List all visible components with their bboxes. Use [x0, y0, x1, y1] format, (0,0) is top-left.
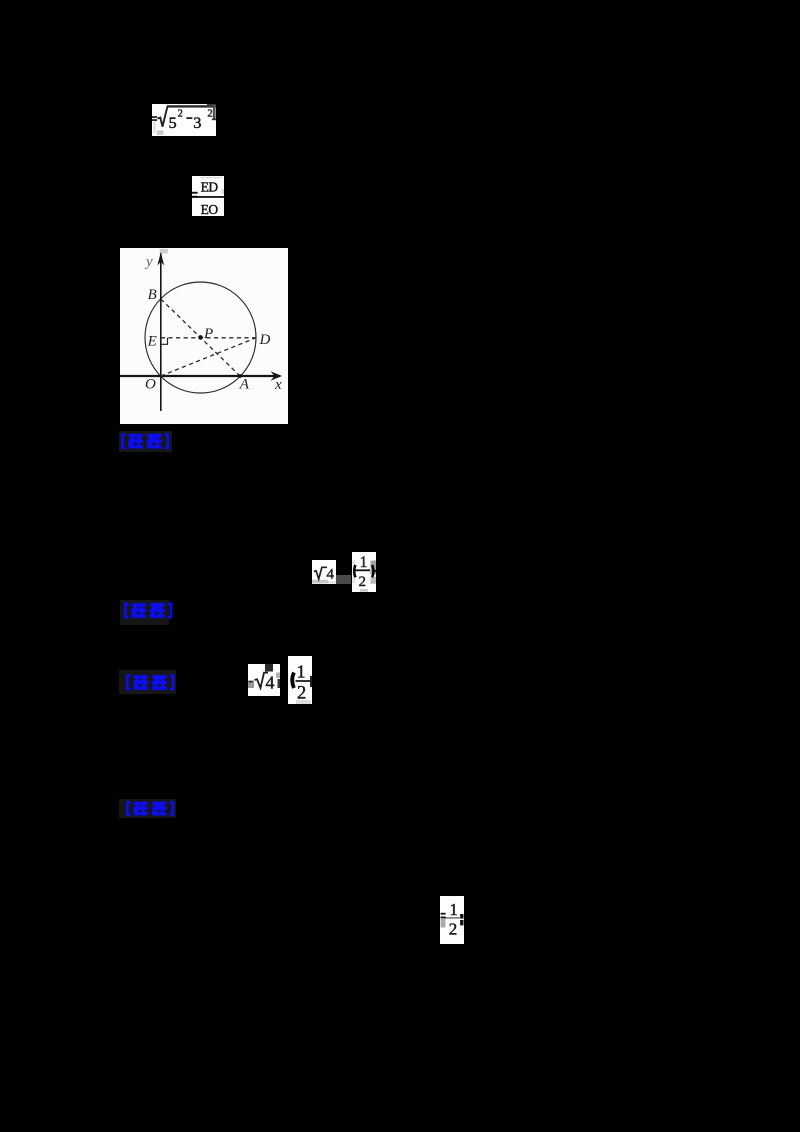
svg-text:ED: ED — [201, 180, 219, 195]
svg-text:4: 4 — [327, 566, 335, 582]
svg-text:5: 5 — [169, 115, 177, 132]
svg-text:P: P — [203, 326, 213, 342]
svg-text:O: O — [145, 377, 156, 393]
svg-text:A: A — [239, 376, 250, 392]
svg-text:B: B — [148, 287, 157, 303]
svg-text:D: D — [259, 332, 271, 348]
svg-text:2: 2 — [207, 108, 212, 119]
svg-text:x: x — [274, 377, 282, 393]
svg-text:2: 2 — [297, 683, 306, 703]
svg-text:1: 1 — [297, 662, 306, 682]
svg-text:1: 1 — [360, 554, 368, 571]
svg-text:EO: EO — [201, 202, 219, 216]
svg-text:1: 1 — [450, 900, 458, 919]
svg-text:4: 4 — [266, 673, 275, 693]
svg-text:y: y — [144, 254, 153, 270]
svg-text:E: E — [147, 333, 157, 349]
svg-text:3: 3 — [193, 115, 201, 132]
svg-text:2: 2 — [178, 108, 183, 119]
svg-text:2: 2 — [359, 574, 367, 590]
svg-text:2: 2 — [449, 919, 458, 938]
